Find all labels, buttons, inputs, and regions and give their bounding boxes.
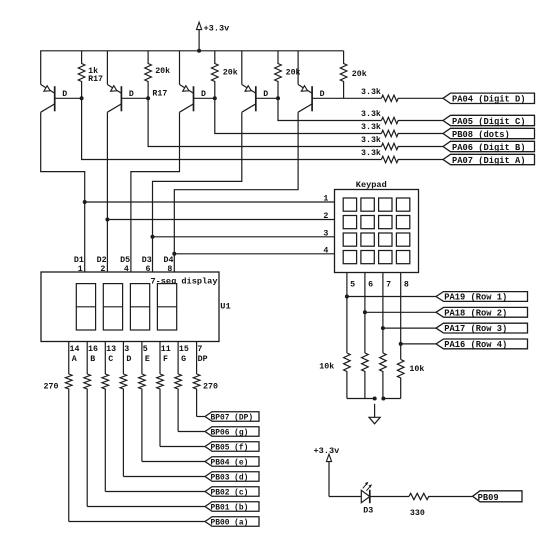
wire keypad column 6: [364, 273, 366, 354]
svg-text:5: 5: [350, 280, 355, 289]
junction column 5 / PA19: [345, 295, 349, 299]
svg-text:D2: D2: [97, 256, 107, 265]
svg-text:1: 1: [323, 195, 328, 204]
power symbol +3.3v (top): [197, 22, 230, 51]
terminal PA17 (Row 3): [436, 323, 528, 334]
7-seg digit cell 1: [76, 284, 95, 330]
svg-text:DP: DP: [198, 355, 208, 364]
svg-text:PB01 (b): PB01 (b): [211, 504, 249, 513]
pin 7 / DP label: [197, 345, 207, 364]
wire ground bus (left segment): [347, 398, 375, 400]
terminal PA05 (Digit C): [443, 115, 535, 127]
wire keypad row line 3: [153, 236, 335, 238]
svg-text:D3: D3: [363, 507, 373, 516]
wire column 7 to PA17: [383, 327, 436, 329]
svg-text:270: 270: [44, 382, 59, 391]
terminal PB00 (a): [205, 517, 259, 528]
svg-text:R17: R17: [152, 89, 167, 98]
svg-text:D4: D4: [164, 256, 174, 265]
junction Q2 base node: [146, 96, 150, 100]
wire Q4 base: [256, 97, 278, 99]
svg-text:+3.3v: +3.3v: [314, 446, 340, 456]
svg-text:D: D: [62, 90, 67, 99]
pin number 7 (keypad bottom): [386, 280, 391, 289]
7-seg display U1 outline: [41, 272, 231, 342]
resistor 10k (column 6): [362, 353, 369, 399]
svg-text:PA04 (Digit D): PA04 (Digit D): [452, 95, 526, 105]
wire Q5 base: [312, 97, 344, 99]
transistor Q5: [298, 85, 325, 113]
svg-text:U1: U1: [220, 302, 230, 312]
pin D5 (pin 4) label: [120, 256, 130, 274]
svg-text:10k: 10k: [319, 362, 334, 372]
svg-text:PB02 (c): PB02 (c): [211, 489, 249, 498]
wire segment DP to BP07 (DP): [197, 416, 205, 418]
svg-text:PA18 (Row 2): PA18 (Row 2): [444, 308, 507, 318]
transistor Q2: [107, 85, 133, 113]
pin D1 (pin 1) label: [74, 256, 84, 274]
svg-text:14: 14: [70, 345, 80, 354]
pin number 3 (keypad left): [323, 230, 328, 239]
pin number 2 (keypad left): [323, 212, 328, 221]
junction +3.3v on rail: [197, 49, 201, 53]
resistor 10k (column 7): [380, 353, 387, 399]
svg-text:C: C: [108, 355, 113, 364]
pin number 4 (keypad left): [323, 247, 328, 256]
wire segment pin 14 (A): [68, 342, 70, 375]
svg-text:7: 7: [197, 345, 202, 354]
resistor 10k (column 8): [397, 360, 424, 399]
svg-text:16: 16: [88, 345, 98, 354]
wire ground bus (right segment): [383, 398, 400, 400]
svg-text:20k: 20k: [155, 66, 170, 76]
terminal PB02 (c): [205, 487, 259, 498]
svg-text:3.3k: 3.3k: [361, 135, 381, 145]
wire Q1 emitter to rail: [40, 51, 42, 85]
wire Q1 base: [55, 97, 82, 99]
svg-text:G: G: [181, 355, 186, 364]
terminal PB09: [473, 491, 522, 503]
junction D2 / row 2: [105, 218, 109, 222]
svg-text:D: D: [126, 355, 131, 364]
pin D4 (pin 8) label: [164, 256, 174, 274]
ground symbol: [369, 404, 380, 424]
junction column 7 / PA17: [381, 326, 385, 330]
svg-text:3.3k: 3.3k: [361, 109, 381, 119]
wire Q2 emitter to rail: [106, 51, 108, 85]
svg-text:3.3k: 3.3k: [361, 87, 381, 97]
resistor 10k (column 5): [319, 353, 350, 399]
terminal PA06 (Digit B): [443, 141, 535, 153]
svg-text:D: D: [201, 90, 206, 99]
resistor 330: [409, 493, 473, 518]
keypad key matrix 4x4: [343, 198, 410, 264]
wire segment C to PB02 (c): [105, 491, 205, 493]
wire column 8 to PA16: [401, 343, 436, 345]
svg-text:1: 1: [78, 265, 83, 274]
svg-text:D: D: [129, 90, 134, 99]
wire column 5 to PA19: [347, 296, 436, 298]
7-seg digit cell 4: [157, 284, 176, 330]
junction Q4 base node: [276, 96, 280, 100]
svg-text:E: E: [145, 355, 150, 364]
junction column 8 / PA16: [399, 342, 403, 346]
wire base node to PA07 line: [82, 98, 382, 159]
pin 3 / D label: [124, 345, 131, 364]
resistor 270 (segment D): [120, 374, 127, 477]
svg-text:PA05 (Digit C): PA05 (Digit C): [452, 117, 526, 127]
terminal PB08 (dots): [443, 128, 535, 140]
svg-text:3.3k: 3.3k: [361, 122, 381, 132]
wire Q1 collector to pin D1: [41, 112, 85, 272]
power symbol +3.3v (bottom): [314, 446, 340, 496]
svg-text:20k: 20k: [286, 68, 301, 78]
terminal PB01 (b): [205, 502, 259, 513]
terminal BP06 (g): [205, 427, 259, 438]
pin number 5 (keypad bottom): [350, 280, 355, 289]
pin 5 / E label: [143, 345, 150, 364]
pin 16 / B label: [88, 345, 98, 364]
svg-text:D: D: [320, 90, 325, 99]
pin number 6 (keypad bottom): [368, 280, 373, 289]
svg-text:D1: D1: [74, 256, 84, 265]
svg-text:PB03 (d): PB03 (d): [211, 474, 249, 483]
svg-text:PB09: PB09: [478, 493, 499, 503]
wire segment B to PB01 (b): [87, 506, 205, 508]
wire base node to PA05 line: [278, 98, 381, 120]
resistor 3.3k (PA06): [361, 135, 443, 150]
junction column 6 / PA18: [363, 310, 367, 314]
wire segment G to BP06 (g): [178, 431, 205, 433]
transistor Q4: [242, 85, 268, 113]
wire segment D to PB03 (d): [123, 476, 205, 478]
junction D1 / row 1: [83, 200, 87, 204]
pin D3 (pin 6) label: [142, 256, 152, 274]
svg-text:+3.3v: +3.3v: [204, 24, 230, 34]
svg-text:Keypad: Keypad: [356, 180, 387, 190]
svg-text:D3: D3: [142, 256, 152, 265]
svg-text:8: 8: [404, 280, 409, 289]
pin 11 / F label: [161, 345, 171, 364]
wire base node to PA06 line: [148, 98, 381, 146]
pin number 1 (keypad left): [323, 195, 328, 204]
svg-text:PA06 (Digit B): PA06 (Digit B): [452, 143, 526, 153]
resistor 3.3k (PA05): [361, 109, 443, 124]
terminal PA18 (Row 2): [436, 307, 528, 318]
svg-text:4: 4: [323, 247, 328, 256]
svg-text:15: 15: [179, 345, 189, 354]
resistor R17 1k (col 1): [78, 51, 103, 99]
wire segment pin 5 (E): [141, 342, 143, 375]
wire base node to PB08 line: [215, 98, 382, 133]
svg-text:BP06 (g): BP06 (g): [211, 429, 249, 438]
wire keypad column 8: [400, 273, 402, 360]
svg-text:4: 4: [124, 265, 129, 274]
wire keypad column 5: [346, 273, 348, 354]
svg-text:11: 11: [161, 345, 171, 354]
keypad U2 outline: [335, 180, 419, 272]
wire keypad row line 1: [85, 201, 335, 203]
resistor 20k (col 5): [340, 51, 366, 99]
junction ground bus / column 7: [381, 397, 385, 401]
svg-text:PA17 (Row 3): PA17 (Row 3): [444, 324, 507, 334]
wire Q5 emitter to rail: [297, 51, 299, 85]
7-seg digit cell 2: [103, 284, 122, 330]
wire Q2 base: [121, 97, 148, 99]
svg-text:A: A: [72, 355, 77, 364]
wire Q4 emitter to rail: [241, 51, 243, 85]
terminal PA04 (Digit D): [443, 93, 535, 105]
svg-text:5: 5: [143, 345, 148, 354]
svg-text:2: 2: [100, 265, 105, 274]
resistor 270 (segment E): [139, 374, 146, 462]
pin 14 / A label: [70, 345, 80, 364]
wire Q5 collector to pin D4: [174, 112, 298, 272]
svg-text:PB04 (e): PB04 (e): [211, 459, 249, 468]
wire keypad column 7: [382, 273, 384, 354]
svg-text:270: 270: [203, 382, 218, 391]
svg-text:R17: R17: [88, 75, 103, 84]
svg-text:20k: 20k: [223, 68, 238, 78]
pin 15 / G label: [179, 345, 189, 364]
svg-text:D5: D5: [120, 256, 130, 265]
svg-text:PB08 (dots): PB08 (dots): [452, 130, 510, 140]
transistor Q3: [180, 85, 207, 113]
wire segment pin 16 (B): [86, 342, 88, 375]
wire keypad row line 2: [107, 219, 334, 221]
LED D3: [361, 482, 373, 516]
svg-text:PA07 (Digit A): PA07 (Digit A): [452, 156, 526, 166]
svg-text:BP07 (DP): BP07 (DP): [211, 414, 254, 423]
svg-text:3.3k: 3.3k: [361, 148, 381, 158]
wire +3.3v to LED D3 anode: [329, 496, 361, 498]
transistor Q1: [41, 85, 67, 113]
wire segment pin 15 (G): [177, 342, 179, 375]
svg-text:PA19 (Row 1): PA19 (Row 1): [444, 293, 507, 303]
svg-text:PB00 (a): PB00 (a): [211, 519, 249, 528]
terminal PA19 (Row 1): [436, 292, 528, 303]
wire Q4 collector to pin D3: [153, 112, 242, 272]
wire keypad row line 4: [174, 253, 334, 255]
junction Q3 base node: [213, 96, 217, 100]
wire Q3 collector to pin D5: [131, 112, 180, 272]
wire segment pin 7 (DP): [196, 342, 198, 375]
svg-text:10k: 10k: [409, 364, 424, 374]
wire segment pin 3 (D): [122, 342, 124, 375]
svg-text:F: F: [163, 355, 168, 364]
junction Q1 base node: [80, 96, 84, 100]
terminal PB05 (f): [205, 442, 259, 453]
svg-text:20k: 20k: [352, 69, 367, 79]
wire segment E to PB04 (e): [142, 461, 205, 463]
resistor 270 (segment C): [102, 374, 109, 492]
wire segment pin 13 (C): [104, 342, 106, 375]
pin number 8 (keypad bottom): [404, 280, 409, 289]
wire Q3 base: [194, 97, 215, 99]
svg-text:PA16 (Row 4): PA16 (Row 4): [444, 340, 507, 350]
wire Q2 collector to pin D2: [106, 112, 108, 272]
junction D3 / row 3: [151, 235, 155, 239]
terminal BP07 (DP): [205, 412, 259, 423]
svg-text:D: D: [263, 90, 268, 99]
wire segment A to PB00 (a): [69, 521, 205, 523]
resistor 3.3k (PB08): [361, 122, 443, 137]
resistor 270 (segment B): [84, 374, 91, 507]
resistor 270 (segment A): [44, 374, 73, 522]
wire segment pin 11 (F): [159, 342, 161, 375]
terminal PB04 (e): [205, 457, 259, 468]
svg-text:3: 3: [124, 345, 129, 354]
wire base node to PA04 line: [344, 97, 382, 99]
terminal PA16 (Row 4): [436, 339, 528, 350]
svg-text:PB05 (f): PB05 (f): [211, 444, 249, 453]
wire segment F to PB05 (f): [160, 446, 205, 448]
svg-text:8: 8: [167, 265, 172, 274]
svg-text:3: 3: [323, 230, 328, 239]
pin 13 / C label: [106, 345, 116, 364]
svg-text:13: 13: [106, 345, 116, 354]
resistor 3.3k (PA04): [361, 87, 443, 102]
resistor 270 (segment G): [175, 374, 182, 432]
svg-text:6: 6: [368, 280, 373, 289]
resistor 270 (segment F): [157, 374, 164, 447]
wire LED D3 cathode to resistor 330: [370, 496, 409, 498]
junction ground bus / ground stem: [373, 397, 377, 401]
7-seg digit cell 3: [130, 284, 149, 330]
svg-text:2: 2: [323, 212, 328, 221]
resistor 20k (col 2): [145, 51, 170, 99]
wire Q3 emitter to rail: [179, 51, 181, 85]
svg-text:7: 7: [386, 280, 391, 289]
pin D2 (pin 2) label: [97, 256, 107, 274]
junction D4 / row 4: [172, 252, 176, 256]
resistor 20k (col 3): [212, 51, 238, 99]
resistor 20k (col 4): [275, 51, 301, 99]
terminal PB03 (d): [205, 472, 259, 483]
wire column 6 to PA18: [365, 311, 436, 313]
resistor 270 (segment DP): [193, 374, 218, 417]
svg-text:330: 330: [410, 509, 425, 518]
power rail +3.3v (top): [40, 50, 343, 52]
svg-text:B: B: [90, 355, 95, 364]
svg-text:6: 6: [146, 265, 151, 274]
resistor 3.3k (PA07): [361, 148, 443, 163]
terminal PA07 (Digit A): [443, 154, 535, 166]
